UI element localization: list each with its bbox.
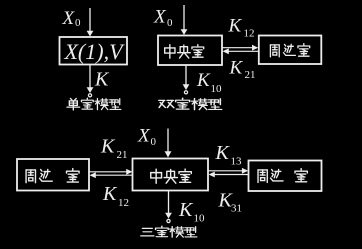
caption: dan shi mo xing (single compartment model): [67, 98, 121, 110]
svg-text:21: 21: [117, 149, 128, 161]
svg-text:0: 0: [75, 17, 81, 29]
svg-text:31: 31: [231, 203, 242, 215]
label zhou-bian shi (right peripheral): [258, 169, 307, 183]
label zhong-yang-shi (central compartment): [165, 45, 204, 59]
svg-text:K: K: [196, 70, 211, 91]
box: left peripheral compartment: [17, 159, 89, 191]
wire: K10 elimination arrow from central box: [183, 65, 190, 94]
svg-text:X: X: [62, 8, 76, 29]
svg-text:X(1),V: X(1),V: [63, 39, 125, 64]
svg-text:10: 10: [194, 213, 206, 225]
svg-text:X: X: [153, 7, 167, 28]
svg-text:K: K: [228, 16, 243, 37]
box: central compartment (diagram 3): [133, 159, 209, 191]
wire: K10 elimination arrow from central box (diagram 3): [165, 191, 172, 223]
caption: san shi mo xing (three compartment model): [141, 226, 197, 237]
svg-text:12: 12: [244, 28, 255, 40]
wire: X0 input arrow into central box (diagram 3): [165, 129, 172, 158]
box: central compartment (diagram 2): [158, 36, 222, 66]
svg-text:0: 0: [151, 136, 157, 148]
svg-text:K: K: [215, 142, 231, 164]
svg-text:X: X: [137, 126, 151, 147]
box: right peripheral compartment: [249, 161, 322, 192]
svg-text:K: K: [178, 199, 194, 221]
box: peripheral compartment (diagram 2): [259, 36, 322, 65]
wire: K31 arrow (right peripheral to central): [209, 172, 249, 178]
svg-text:10: 10: [211, 83, 223, 95]
wire: K12 arrow (central to left peripheral): [90, 172, 133, 178]
label zhong-yang-shi (central, diagram 3): [151, 169, 192, 183]
svg-text:13: 13: [231, 156, 243, 168]
wire: K12 arrow (central to peripheral): [223, 45, 259, 51]
svg-text:K: K: [94, 69, 110, 91]
svg-text:21: 21: [245, 69, 256, 81]
box: X(1),V compartment: [60, 37, 128, 65]
svg-text:0: 0: [167, 17, 173, 29]
svg-text:K: K: [102, 183, 118, 205]
caption: shuang shi mo xing (two compartment model): [159, 98, 222, 110]
svg-text:K: K: [100, 136, 116, 158]
wire: X0 input arrow into central box: [181, 5, 188, 35]
svg-text:12: 12: [118, 197, 129, 209]
wire: K21 arrow (left peripheral to central): [90, 169, 133, 175]
label zhou-bian shi (left peripheral): [26, 169, 79, 183]
wire: X0 input arrow into box 1: [87, 8, 94, 37]
label zhou-bian-shi (peripheral compartment): [270, 44, 309, 57]
wire: K21 arrow (peripheral to central): [223, 48, 259, 54]
svg-text:K: K: [229, 58, 244, 79]
wire: K elimination arrow from box 1: [87, 65, 94, 97]
wire: K13 arrow (central to right peripheral): [209, 168, 249, 174]
